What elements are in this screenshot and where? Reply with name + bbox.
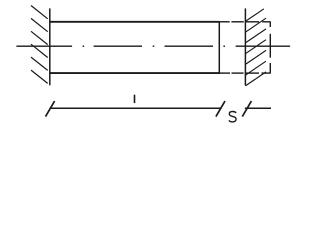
label S (229, 112, 236, 122)
tick at bar end (216, 101, 225, 117)
right wall face (244, 8, 246, 85)
bar right end (218, 21, 220, 74)
label l (134, 95, 136, 103)
centerline (dash-dot) (16, 45, 290, 47)
dimension line l (50, 107, 221, 109)
dashed bottom extension of bar (219, 72, 270, 74)
tick at right wall (242, 101, 251, 117)
technical drawing: rod of length l fixed to left wall, gap S to right wall (0, 0, 309, 136)
tick at left wall (46, 101, 55, 117)
left wall hatching (31, 6, 48, 84)
dashed right edge of future bar position (269, 22, 271, 73)
dashed top extension of bar (219, 21, 270, 23)
bar bottom edge (50, 72, 220, 74)
bar top edge (50, 21, 220, 23)
left wall face (49, 8, 51, 85)
dimension line S (245, 107, 271, 109)
right wall hatching (245, 9, 266, 86)
